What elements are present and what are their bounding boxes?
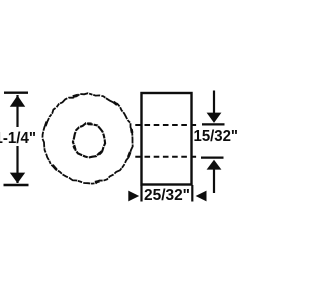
svg-text:1-1/4": 1-1/4" [0,130,36,147]
svg-text:25/32": 25/32" [144,187,190,204]
svg-text:15/32": 15/32" [194,128,239,145]
